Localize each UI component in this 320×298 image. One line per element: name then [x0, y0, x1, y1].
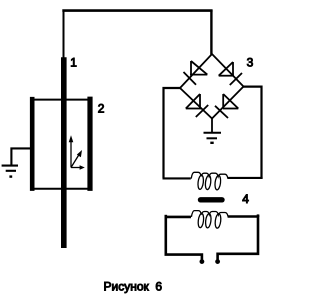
svg-text:4: 4 [242, 192, 249, 206]
diode D1 (top-left) [184, 61, 208, 85]
field vector arrow right [71, 165, 85, 170]
field vector arrow diagonal [71, 150, 82, 168]
wire: upper loop bottom-right segment [227, 177, 262, 179]
wire: upper loop bottom-left segment [163, 177, 191, 179]
diode D4 (bottom-right) [215, 94, 238, 118]
terminal dot left [200, 259, 205, 264]
ground (left) [2, 166, 18, 177]
chamber 2 left electrode [30, 97, 35, 191]
svg-text:3: 3 [247, 55, 254, 69]
inductor L1 [191, 172, 228, 190]
svg-text:Рисунок 6: Рисунок 6 [104, 279, 163, 293]
wire: down to bridge top node [210, 10, 212, 55]
wire: antenna thin lead [63, 11, 65, 58]
terminal dot right [215, 259, 220, 264]
svg-text:1: 1 [70, 55, 77, 69]
wire: lower loop left half [166, 217, 202, 260]
wire: right node to upper loop [243, 87, 262, 179]
chamber 2 bottom edge [30, 188, 93, 190]
ground (bridge) [204, 133, 222, 143]
inductor L2 [191, 211, 228, 229]
diode D2 (top-right) [219, 62, 242, 85]
wire: chamber to left ground [11, 148, 30, 164]
field vector arrow up [69, 135, 74, 167]
wire: bottom node to ground [211, 118, 213, 133]
antenna electrode 1 [61, 57, 67, 248]
chamber 2 top edge [30, 99, 93, 101]
diode D3 (bottom-left) [186, 94, 208, 117]
core bar 4 [201, 197, 223, 202]
wire: bridge diamond arms [180, 54, 244, 119]
wire: left node to upper loop [164, 88, 181, 178]
svg-text:2: 2 [98, 101, 105, 115]
wire: lower loop top-left corner tick [165, 215, 168, 217]
wire: lower loop top-right corner tick [257, 214, 260, 217]
wire: lower loop right half [218, 217, 258, 260]
wire: top horizontal feed [62, 9, 212, 12]
chamber 2 right electrode [87, 97, 92, 191]
